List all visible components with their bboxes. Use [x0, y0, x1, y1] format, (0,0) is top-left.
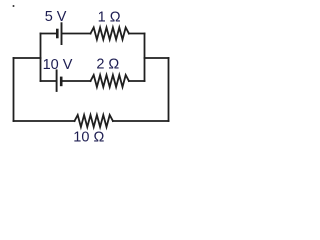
svg-text:2 Ω: 2 Ω [96, 56, 119, 72]
svg-text:10 Ω: 10 Ω [73, 129, 104, 145]
wire middle branch: left node to battery V2 [41, 80, 56, 82]
wire inner-right vertical: top branch to middle branch [144, 34, 146, 82]
battery V2 positive plate (long thin) [56, 69, 58, 92]
wire middle branch: battery V2 to resistor R2 [62, 80, 90, 82]
resistor R3 10-ohm zigzag [75, 115, 113, 127]
wire top branch: left node to battery V1 [41, 33, 57, 35]
resistor R2 2-ohm zigzag [91, 75, 129, 87]
resistor R1 1-ohm zigzag [91, 28, 129, 40]
wire inner-left vertical: top branch to middle branch [40, 34, 42, 82]
battery V1 positive plate (long thin) [61, 22, 63, 45]
wire right jog: inner-right junction to outer-right [145, 57, 169, 59]
battery V1 negative plate (short thick) [56, 29, 59, 39]
svg-text:10 V: 10 V [43, 57, 73, 73]
wire top branch: resistor R1 to top-right corner [129, 33, 145, 35]
svg-text:5 V: 5 V [45, 9, 67, 25]
wire bottom: left to resistor R3 [14, 120, 75, 122]
wire top branch: battery V1 to resistor R1 [63, 33, 91, 35]
battery V2 negative plate (short thick) [60, 77, 63, 87]
wire middle branch: resistor R2 to inner-right vertical [129, 80, 145, 82]
wire left jog: outer-left to inner-left junction [14, 57, 41, 59]
wire outer-right vertical [168, 58, 170, 121]
wire outer-left vertical [13, 58, 15, 121]
svg-text:1 Ω: 1 Ω [98, 10, 121, 26]
stray dot (period artifact) top-left [13, 5, 15, 7]
wire bottom: resistor R3 to right [113, 120, 169, 122]
